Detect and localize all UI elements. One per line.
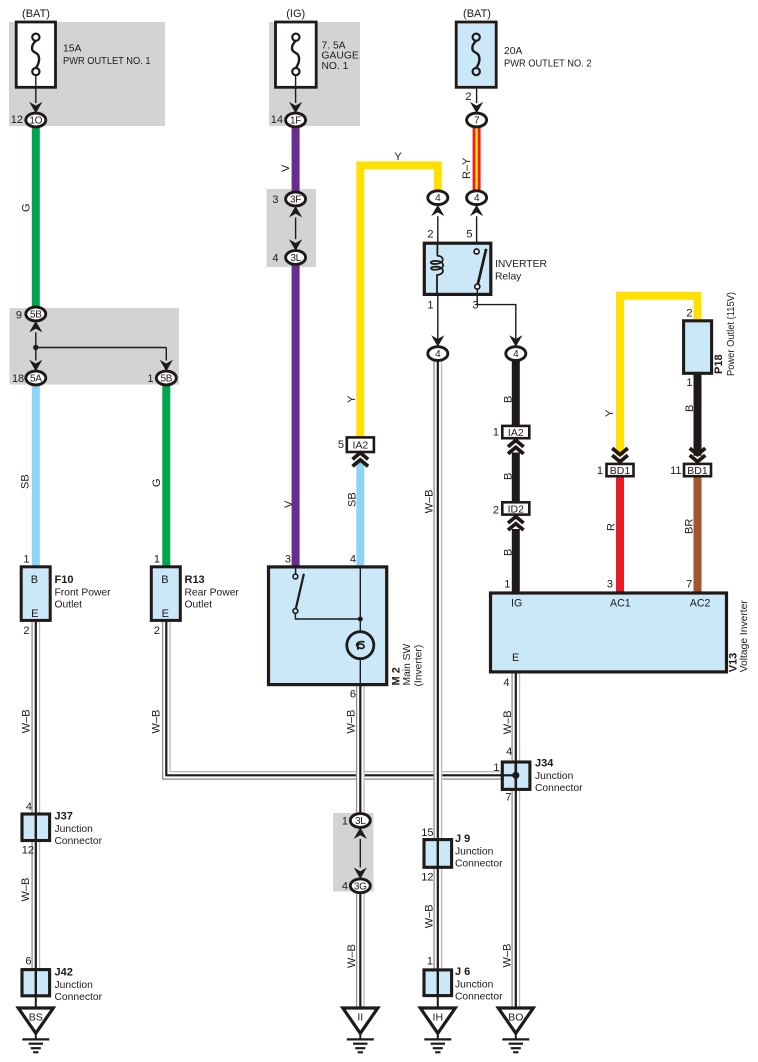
svg-text:Rear Power: Rear Power — [185, 587, 240, 598]
connector 4 relay pin2 — [428, 191, 448, 205]
ground BS — [18, 1008, 53, 1052]
junction IA2 pin1 — [502, 426, 529, 439]
svg-text:5: 5 — [338, 439, 344, 451]
svg-text:1: 1 — [504, 578, 510, 590]
svg-text:G: G — [21, 203, 33, 212]
svg-text:3: 3 — [285, 554, 291, 566]
junction connector J34 — [502, 762, 530, 789]
wire stem J6 to ground IH — [437, 996, 439, 1009]
svg-text:1F: 1F — [290, 116, 301, 127]
relay INVERTER Relay — [424, 243, 491, 294]
svg-text:IG: IG — [511, 598, 522, 610]
svg-text:IA2: IA2 — [508, 427, 524, 439]
connector 4 3L — [286, 251, 306, 265]
wire B black from IA2 to ID2 — [512, 453, 520, 503]
svg-text:Junction: Junction — [455, 979, 494, 990]
connector 7 — [467, 113, 487, 127]
svg-text:4: 4 — [350, 554, 356, 566]
svg-text:20A: 20A — [504, 46, 522, 57]
svg-text:7: 7 — [474, 116, 480, 127]
svg-text:3L: 3L — [290, 253, 301, 264]
svg-text:Outlet: Outlet — [55, 600, 83, 611]
svg-text:R13: R13 — [185, 574, 205, 586]
svg-text:Connector: Connector — [55, 992, 103, 1003]
svg-text:1: 1 — [342, 816, 348, 828]
chevron arrows above BD1 pin11 — [690, 448, 706, 462]
svg-text:IA2: IA2 — [352, 440, 368, 452]
wire B black from P18 pin1 to BD1 — [694, 373, 702, 456]
svg-text:P18: P18 — [713, 354, 725, 374]
svg-text:1: 1 — [23, 554, 29, 566]
svg-text:W–B: W–B — [424, 490, 436, 514]
wire W-B from F10 pin2 through J37 to J42 — [32, 620, 39, 995]
wire W-B from connector 5B(right) to R13 pin1 green — [162, 385, 170, 567]
svg-text:PWR OUTLET NO. 2: PWR OUTLET NO. 2 — [504, 58, 592, 69]
svg-text:W–B: W–B — [20, 709, 32, 733]
svg-text:W–B: W–B — [346, 710, 358, 734]
svg-text:Voltage Inverter: Voltage Inverter — [739, 600, 750, 673]
svg-text:11: 11 — [670, 465, 681, 477]
svg-text:Power Outlet (115V): Power Outlet (115V) — [726, 292, 737, 376]
svg-text:V13: V13 — [728, 653, 740, 673]
svg-text:W–B: W–B — [346, 944, 358, 968]
svg-text:E: E — [162, 608, 169, 620]
svg-text:(BAT): (BAT) — [22, 8, 50, 20]
svg-text:(Inverter): (Inverter) — [414, 645, 425, 687]
svg-text:W–B: W–B — [502, 710, 514, 734]
svg-text:1: 1 — [493, 762, 499, 774]
connector F10 Front Power Outlet — [21, 567, 50, 621]
junction connector J42 — [22, 970, 50, 996]
svg-text:2: 2 — [686, 307, 692, 319]
connector 14 1F — [286, 113, 306, 127]
gray background block connectors 3F/3L — [267, 189, 317, 267]
junction BD1 pin11 — [684, 464, 711, 477]
svg-text:PWR OUTLET NO. 1: PWR OUTLET NO. 1 — [63, 56, 151, 67]
svg-text:BR: BR — [684, 519, 696, 534]
svg-text:Junction: Junction — [535, 771, 574, 782]
svg-text:1: 1 — [147, 373, 153, 385]
svg-text:6: 6 — [350, 689, 356, 701]
svg-text:1: 1 — [154, 554, 160, 566]
gray background block fuse PWR OUTLET NO.1 — [9, 22, 165, 126]
svg-text:4: 4 — [435, 193, 441, 204]
svg-text:Connector: Connector — [455, 859, 503, 870]
wire W-B from V13 pin4 E to J34 pin4 — [512, 672, 519, 762]
svg-text:4: 4 — [474, 193, 480, 204]
svg-text:7: 7 — [686, 578, 692, 590]
svg-text:M 2: M 2 — [391, 667, 403, 685]
gray background block connectors 5B/5A — [10, 308, 180, 385]
svg-text:B: B — [503, 473, 515, 480]
connector R13 Rear Power Outlet — [151, 567, 180, 621]
wire SB from IA2 chevron to M2 pin4 — [356, 463, 364, 567]
connector 9 5B — [26, 307, 46, 321]
svg-text:4: 4 — [26, 801, 32, 813]
svg-text:W–B: W–B — [423, 904, 435, 928]
connector 4 below relay pin1 — [428, 347, 448, 361]
arrow into 3L — [289, 239, 302, 250]
svg-text:B: B — [503, 549, 515, 556]
gray background block fuse GAUGE NO.1 — [269, 22, 360, 126]
wire stem fuse3 pin2 to connector 7 with arrow — [476, 87, 478, 103]
connector 4 3G — [350, 879, 370, 893]
svg-text:J42: J42 — [55, 967, 73, 979]
svg-text:Main SW: Main SW — [402, 643, 413, 685]
svg-text:W–B: W–B — [20, 878, 32, 902]
wire stem fuse1 to connector 1O with arrow — [35, 75, 37, 103]
wire R red from BD1 to V13 pin3 AC1 — [616, 476, 624, 593]
svg-text:BD1: BD1 — [610, 465, 631, 477]
connector 12 1O — [26, 113, 46, 127]
arrow into 5B — [29, 321, 42, 332]
wire V violet from fuse connector 1F to connector 3F — [292, 127, 300, 192]
svg-text:14: 14 — [271, 114, 283, 126]
fuse 15A PWR OUTLET NO.1 — [16, 22, 55, 87]
svg-text:II: II — [357, 1012, 363, 1024]
svg-text:IH: IH — [433, 1012, 444, 1024]
arrow into 3L bottom — [354, 828, 367, 839]
svg-text:1: 1 — [427, 956, 433, 968]
svg-text:W–B: W–B — [151, 710, 163, 734]
svg-text:18: 18 — [12, 373, 24, 385]
svg-text:3: 3 — [472, 300, 478, 312]
svg-text:1: 1 — [493, 426, 499, 438]
wire SB from connector 5A to F10 pin1 — [32, 385, 40, 567]
wire stem J42 to ground BS — [35, 996, 37, 1009]
svg-text:6: 6 — [25, 955, 31, 967]
svg-text:R: R — [606, 523, 618, 531]
svg-text:12: 12 — [421, 871, 433, 883]
arrow into 3G — [354, 868, 367, 879]
svg-text:J37: J37 — [55, 811, 73, 823]
wire W-B from relay connector 4 through J9 to J6 — [434, 360, 441, 995]
svg-text:2: 2 — [465, 91, 471, 103]
svg-text:W–B: W–B — [502, 944, 514, 968]
inverter V13 Voltage Inverter — [491, 593, 727, 672]
junction connector J9 — [424, 840, 452, 868]
wire W-B from J34 pin7 to ground BO — [512, 789, 519, 1008]
arrow into 3F — [289, 206, 302, 217]
wire BR brown from BD1 to V13 pin7 AC2 — [694, 476, 702, 593]
svg-text:12: 12 — [11, 114, 23, 126]
wire W-B from connector 3G to ground II — [357, 893, 364, 1009]
wire relay pin3 jog to connector 4 with arrow — [477, 294, 516, 341]
svg-text:5: 5 — [466, 229, 472, 241]
svg-text:3G: 3G — [354, 881, 367, 892]
wire between 3L and 3G — [359, 839, 361, 867]
fuse 7.5A GAUGE NO.1 — [276, 22, 317, 87]
svg-text:4: 4 — [503, 677, 509, 689]
wire W-B from M2 pin6 to connector 3L — [357, 685, 364, 814]
svg-text:Connector: Connector — [455, 992, 503, 1003]
wire between 3F and 3L — [295, 218, 297, 240]
svg-text:SB: SB — [20, 474, 32, 489]
wire stem to 5B right with arrow — [165, 348, 167, 361]
svg-text:15A: 15A — [63, 44, 81, 55]
svg-text:E: E — [512, 652, 519, 664]
svg-text:Front Power: Front Power — [55, 587, 112, 598]
svg-text:R–Y: R–Y — [461, 157, 473, 179]
connector 4 relay pin5 — [467, 191, 487, 205]
svg-text:G: G — [151, 478, 163, 487]
svg-text:AC2: AC2 — [690, 598, 711, 610]
junction BD1 pin1 — [607, 464, 634, 477]
wire B black from relay connector 4 to IA2 — [512, 360, 520, 426]
svg-text:NO. 1: NO. 1 — [322, 61, 349, 72]
svg-text:B: B — [161, 574, 168, 586]
svg-text:Connector: Connector — [535, 783, 583, 794]
switch M2 Main SW Inverter — [269, 567, 387, 685]
svg-text:1: 1 — [686, 377, 692, 389]
ground IH — [420, 1008, 455, 1052]
svg-text:7: 7 — [505, 792, 511, 804]
arrow up into connector 4 and stem to relay pin2 — [431, 205, 444, 216]
svg-text:1O: 1O — [29, 116, 42, 127]
svg-text:Junction: Junction — [455, 846, 494, 857]
svg-text:AC1: AC1 — [610, 598, 631, 610]
svg-text:3: 3 — [272, 194, 278, 206]
svg-text:4: 4 — [272, 253, 278, 265]
chevron arrows below IA2 — [353, 453, 369, 467]
svg-text:4: 4 — [506, 746, 512, 758]
svg-text:5B: 5B — [160, 374, 172, 385]
junction connector J6 — [424, 970, 452, 996]
svg-text:5B: 5B — [30, 310, 42, 321]
wire Y yellow from IA2 pin5 up and right to relay connector 4 — [360, 165, 438, 437]
wire junction 5B to 5A/5B — [35, 332, 37, 347]
svg-text:(BAT): (BAT) — [463, 8, 491, 20]
svg-text:Connector: Connector — [55, 836, 103, 847]
gray background block connectors 3L/3G — [333, 813, 374, 892]
svg-text:SB: SB — [347, 492, 359, 507]
wire W-B from R13 pin2 down and right to J34 pin 1 — [163, 620, 504, 779]
chevron arrows below ID2 — [508, 517, 524, 531]
svg-text:INVERTER: INVERTER — [495, 259, 547, 270]
svg-text:V: V — [280, 164, 292, 172]
svg-text:12: 12 — [22, 845, 34, 857]
connector 3 3F — [286, 192, 306, 206]
wire stem fuse2 to connector 1F with arrow — [295, 75, 297, 103]
svg-text:BO: BO — [508, 1012, 523, 1024]
wire R-Y red/yellow from fuse connector 7 to relay connector 4 — [473, 127, 481, 191]
junction IA2 pin5 — [347, 437, 374, 452]
fuse 20A PWR OUTLET NO.2 — [456, 22, 496, 87]
svg-text:Junction: Junction — [55, 980, 94, 991]
svg-text:1: 1 — [597, 465, 603, 477]
ground II — [343, 1008, 378, 1052]
svg-text:2: 2 — [427, 229, 433, 241]
svg-text:5A: 5A — [30, 374, 42, 385]
junction connector J37 — [22, 814, 50, 841]
wire relay pin1 to connector 4 with arrow — [437, 294, 439, 341]
svg-text:2: 2 — [154, 625, 160, 637]
svg-text:J 9: J 9 — [455, 833, 470, 845]
svg-text:Y: Y — [346, 395, 358, 403]
connector 1 5B right — [156, 371, 176, 385]
svg-text:E: E — [31, 608, 38, 620]
chevron arrows above BD1 pin1 — [612, 448, 628, 462]
svg-text:F10: F10 — [55, 574, 74, 586]
wire stem to 5A with arrow — [35, 348, 37, 361]
svg-text:Y: Y — [604, 409, 616, 417]
junction ID2 pin2 — [502, 502, 529, 515]
svg-text:Relay: Relay — [495, 271, 522, 282]
svg-text:4: 4 — [513, 349, 519, 360]
chevron arrows below IA2 pin1 — [508, 440, 524, 454]
svg-text:BD1: BD1 — [687, 465, 708, 477]
svg-text:J 6: J 6 — [455, 966, 470, 978]
connector 1 3L bottom — [350, 814, 370, 828]
wire B black from ID2 to V13 pin1 IG — [512, 529, 520, 593]
svg-text:J34: J34 — [535, 758, 554, 770]
svg-text:4: 4 — [342, 881, 348, 893]
svg-text:B: B — [684, 405, 696, 412]
svg-text:BS: BS — [29, 1012, 43, 1024]
wire V violet from connector 3L to M2 pin3 — [292, 264, 300, 567]
svg-text:3: 3 — [607, 578, 613, 590]
svg-text:ID2: ID2 — [508, 503, 525, 515]
connector 18 5A — [26, 371, 46, 385]
connector P18 Power Outlet 115V — [684, 321, 712, 374]
svg-text:B: B — [503, 396, 515, 403]
ground BO — [498, 1008, 533, 1052]
svg-text:9: 9 — [16, 310, 22, 322]
svg-text:B: B — [31, 574, 38, 586]
svg-text:(IG): (IG) — [286, 8, 305, 20]
svg-text:15: 15 — [421, 827, 433, 839]
svg-text:2: 2 — [23, 625, 29, 637]
svg-text:3L: 3L — [355, 816, 366, 827]
wire Y yellow from BD1 up and right to P18 pin2 — [620, 296, 698, 456]
svg-text:4: 4 — [435, 349, 441, 360]
svg-text:Junction: Junction — [55, 824, 94, 835]
svg-text:V: V — [283, 500, 295, 508]
arrow up into connector 4 and stem to relay pin5 — [470, 205, 483, 216]
connector 4 below relay pin3 — [506, 347, 526, 361]
wire G green from fuse connector 1O to connector 5B — [32, 127, 40, 307]
svg-text:3F: 3F — [290, 195, 301, 206]
svg-text:1: 1 — [427, 300, 433, 312]
svg-text:Y: Y — [394, 151, 402, 163]
svg-text:Outlet: Outlet — [185, 600, 213, 611]
svg-text:2: 2 — [493, 504, 499, 516]
